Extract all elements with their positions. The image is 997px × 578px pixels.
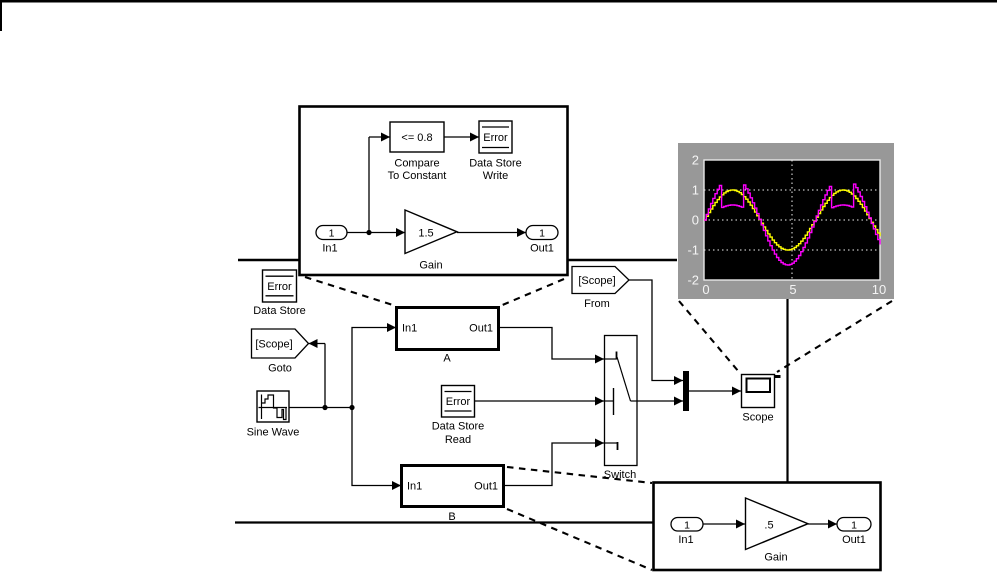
- wire to Goto: [309, 339, 328, 410]
- svg-text:Gain: Gain: [419, 260, 442, 272]
- block Goto [Scope]: [252, 329, 309, 375]
- svg-text:Write: Write: [483, 170, 508, 182]
- scope screenshot frame: [678, 143, 894, 299]
- subsystem detail box B: [654, 483, 881, 571]
- scope grid lines: [704, 160, 880, 280]
- svg-text:<= 0.8: <= 0.8: [401, 132, 432, 144]
- wire branch up to Compare To Constant: [369, 133, 390, 233]
- svg-text:-2: -2: [687, 273, 699, 288]
- svg-text:Scope: Scope: [742, 412, 773, 424]
- svg-text:[Scope]: [Scope]: [578, 275, 615, 287]
- svg-text:1: 1: [329, 228, 335, 240]
- port In1 (top box): [316, 226, 347, 255]
- callout dashed line top-box to A left: [305, 277, 396, 306]
- block Data Store: [253, 270, 306, 317]
- svg-text:Out1: Out1: [469, 323, 493, 335]
- wire trunk vertical to A and B: [352, 323, 401, 490]
- scope trace magenta switched: [704, 184, 880, 265]
- wire Compare to Data Store Write: [444, 133, 479, 142]
- svg-text:1: 1: [539, 228, 545, 240]
- scope axis labels: [687, 153, 886, 298]
- port Out1 (bottom box): [837, 518, 871, 547]
- block Mux: [683, 371, 689, 411]
- subsystem detail box A: [300, 107, 568, 276]
- wire In1 to Gain with junction: [347, 228, 405, 237]
- block Switch: [604, 336, 637, 482]
- svg-text:Out1: Out1: [530, 243, 554, 255]
- svg-text:Compare: Compare: [394, 158, 439, 170]
- block Data Store Read: [432, 386, 485, 447]
- wire B output to Switch input3: [504, 439, 604, 486]
- svg-text:Sine Wave: Sine Wave: [247, 427, 300, 439]
- svg-text:To Constant: To Constant: [388, 170, 447, 182]
- svg-text:In1: In1: [407, 481, 422, 493]
- svg-text:.5: .5: [764, 520, 773, 532]
- svg-text:Error: Error: [483, 132, 508, 144]
- svg-text:Gain: Gain: [764, 552, 787, 564]
- wire vertical line right: [786, 298, 788, 483]
- wire From to Mux: [629, 280, 683, 385]
- svg-text:From: From: [584, 298, 610, 310]
- callout dashed line B to gain-box top: [507, 467, 652, 483]
- svg-text:Read: Read: [445, 434, 471, 446]
- svg-text:In1: In1: [678, 534, 693, 546]
- svg-text:In1: In1: [402, 323, 417, 335]
- callout dashed line scope-image to Scope block left: [679, 301, 739, 372]
- wire Gain to Out1: [457, 228, 526, 237]
- subsystem A: [397, 308, 499, 365]
- svg-text:Data Store: Data Store: [432, 421, 485, 433]
- svg-text:1.5: 1.5: [418, 228, 433, 240]
- svg-text:In1: In1: [322, 243, 337, 255]
- svg-text:2: 2: [692, 153, 699, 168]
- wire Sine Wave output with junctions: [289, 405, 355, 410]
- block Compare To Constant: [388, 122, 447, 182]
- wire Gain to Out1 (bottom box): [808, 520, 837, 529]
- svg-text:Error: Error: [267, 281, 292, 293]
- subsystem B: [402, 466, 504, 524]
- svg-text:Out1: Out1: [474, 481, 498, 493]
- wire Data Store Read to Switch input2: [475, 397, 605, 406]
- svg-text:-1: -1: [687, 243, 699, 258]
- wire Switch output to Mux: [637, 397, 683, 406]
- svg-text:Goto: Goto: [268, 363, 292, 375]
- svg-text:0: 0: [702, 282, 709, 297]
- svg-text:Switch: Switch: [604, 469, 636, 481]
- svg-text:Out1: Out1: [842, 534, 866, 546]
- svg-text:5: 5: [789, 282, 796, 297]
- block Data Store Write: [469, 121, 522, 182]
- svg-text:0: 0: [692, 213, 699, 228]
- block From [Scope]: [572, 267, 629, 311]
- svg-text:10: 10: [872, 282, 886, 297]
- port In1 (bottom box): [671, 518, 703, 547]
- svg-text:Data Store: Data Store: [469, 158, 522, 170]
- block Gain 1.5: [405, 210, 457, 272]
- svg-text:1: 1: [684, 520, 690, 532]
- scope trace yellow sine: [704, 190, 880, 250]
- callout dashed line scope-image to Scope block right: [777, 301, 892, 372]
- scope plot area: [704, 160, 880, 280]
- svg-text:A: A: [443, 353, 451, 365]
- wire In1 to Gain (bottom box): [703, 520, 745, 529]
- page left border tick: [0, 0, 2, 31]
- svg-text:B: B: [448, 511, 455, 523]
- wire Mux to Scope: [689, 387, 741, 396]
- block Gain .5: [746, 498, 809, 564]
- wire long horizontal line lower: [235, 521, 654, 523]
- page top border: [0, 0, 997, 3]
- callout dashed line B to gain-box bottom: [507, 509, 652, 570]
- port Out1 (top box): [526, 226, 558, 255]
- wire A output to Switch input1: [499, 328, 604, 364]
- svg-text:1: 1: [851, 520, 857, 532]
- block Scope: [742, 375, 781, 424]
- callout dashed line top-box to A right: [500, 279, 564, 306]
- wire long horizontal line upper: [238, 259, 677, 261]
- svg-text:1: 1: [692, 183, 699, 198]
- svg-text:[Scope]: [Scope]: [255, 339, 292, 351]
- svg-text:Data Store: Data Store: [253, 305, 306, 317]
- block Sine Wave: [247, 391, 300, 439]
- svg-text:Error: Error: [446, 396, 471, 408]
